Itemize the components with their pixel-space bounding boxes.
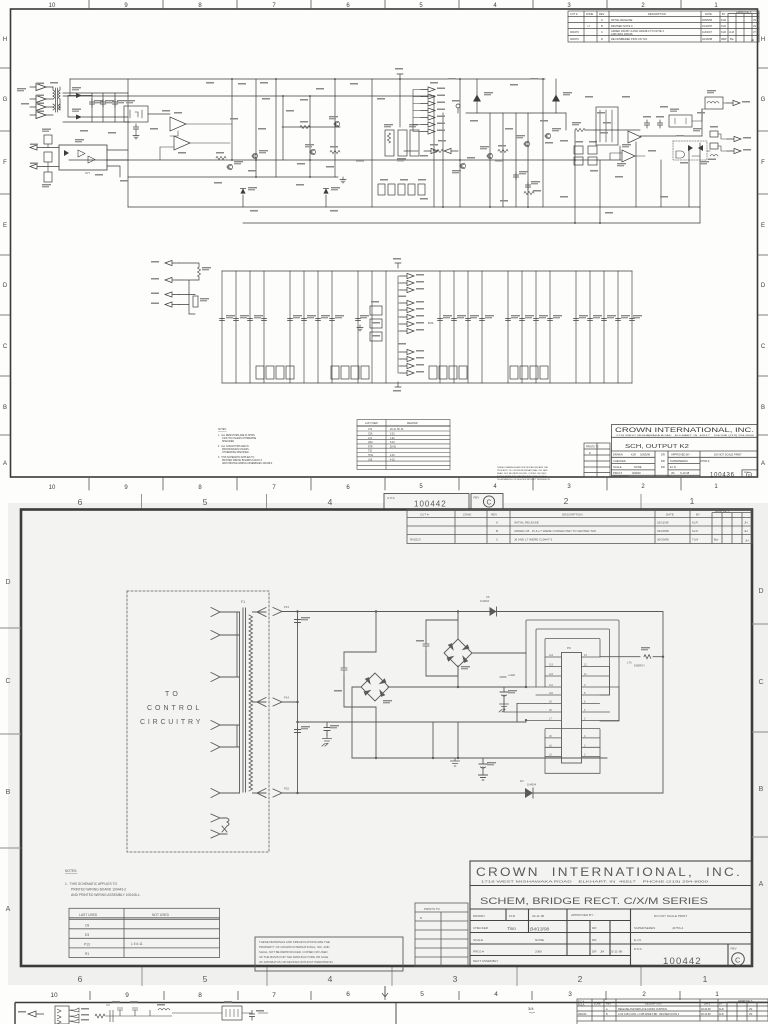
svg-text:CHECKED: CHECKED [613, 459, 626, 463]
ground node array [357, 325, 363, 331]
connector arrow stack P8/P12 [413, 87, 445, 134]
svg-text:D: D [3, 283, 8, 289]
svg-text:VCT: VCT [85, 172, 90, 175]
svg-text:S-10-98: S-10-98 [680, 471, 690, 475]
capacitor C1 [295, 617, 301, 625]
svg-text:4: 4 [328, 974, 333, 984]
svg-text:B: B [761, 405, 765, 411]
ruler numbers bottom (page1) [49, 484, 719, 491]
output arrow P09-1 [727, 136, 741, 141]
P9 wire loop outer [526, 620, 619, 721]
svg-text:1: 1 [703, 974, 708, 984]
svg-text:1N4004: 1N4004 [480, 599, 490, 603]
input arrow P10-4 [30, 145, 44, 150]
svg-text:JLM: JLM [729, 30, 734, 34]
diode CR11 [76, 93, 82, 98]
capacitor C09 [657, 120, 662, 128]
ruler numbers bottom page2 [78, 974, 708, 984]
dashed boundary box TO CONTROL CIRCUITRY [127, 591, 269, 852]
svg-text:CIRCUITRY: CIRCUITRY [140, 719, 203, 726]
D2 loop wiring [426, 612, 526, 677]
svg-text:P13: P13 [84, 943, 90, 947]
capacitor C08 [644, 120, 649, 128]
svg-text:6: 6 [78, 974, 83, 984]
svg-text:JM: JM [749, 1013, 752, 1016]
ruler tick marks left edge [0, 68, 10, 435]
svg-text:C: C [761, 344, 766, 350]
ground below C3 [322, 736, 332, 747]
misc reference designator smudges [80, 82, 668, 214]
svg-text:000479: 000479 [570, 37, 579, 41]
diode D55 [698, 145, 703, 151]
svg-text:KLR: KLR [721, 30, 726, 34]
ground node [340, 177, 346, 183]
svg-text:THESE DRAWINGS AND SPECIFICATI: THESE DRAWINGS AND SPECIFICATIONS ARE TH… [259, 940, 330, 944]
svg-text:U16: U16 [368, 459, 373, 461]
svg-text:5: 5 [203, 497, 208, 507]
output arrow P09-2 [727, 148, 741, 153]
svg-text:PROPERTY OF CROWN INTERNATIONA: PROPERTY OF CROWN INTERNATIONAL, INC. AN… [259, 945, 330, 949]
svg-text:C74: C74 [368, 429, 373, 431]
svg-text:CUT #: CUT # [420, 513, 429, 517]
svg-text:C: C [758, 679, 763, 686]
capacitor row [220, 319, 635, 321]
ruler numbers top page2 [78, 496, 695, 507]
diode D52 [473, 95, 481, 102]
svg-text:Bw: Bw [730, 37, 734, 41]
transistor Q4 [545, 133, 551, 138]
svg-text:SCHEM, BRIDGE RECT. C/X/M SERI: SCHEM, BRIDGE RECT. C/X/M SERIES [480, 896, 708, 906]
svg-text:1718 WEST MISHAWAKA ROAD ELK: 1718 WEST MISHAWAKA ROAD ELKHART, IN 465… [616, 434, 755, 437]
svg-text:P13: P13 [284, 605, 289, 609]
svg-text:NEXT ASSEMBLY: NEXT ASSEMBLY [473, 959, 498, 963]
svg-text:ENERGY: ENERGY [634, 664, 645, 668]
svg-text:000479: 000479 [570, 30, 579, 34]
svg-text:C8: C8 [85, 924, 89, 928]
svg-text:KLR: KLR [692, 529, 699, 533]
P9 lower pin stubs [545, 738, 600, 757]
svg-text:L 5 #-11: L 5 #-11 [131, 942, 143, 946]
svg-text:02/05/96: 02/05/96 [640, 453, 651, 457]
svg-text:PROJ #: PROJ # [473, 950, 484, 954]
svg-text:B: B [3, 405, 7, 411]
svg-text:DESCRIPTION: DESCRIPTION [645, 1003, 662, 1006]
svg-text:PROPERTY OF CROWN INTERNATIONA: PROPERTY OF CROWN INTERNATIONAL, INC. AN… [497, 469, 548, 472]
svg-text:DR: DR [592, 938, 597, 942]
svg-text:02-11-98: 02-11-98 [610, 950, 622, 954]
connector J50 [55, 1006, 69, 1024]
diode D50 [240, 188, 245, 193]
svg-text:02-11-98: 02-11-98 [532, 914, 544, 918]
svg-text:A: A [761, 461, 765, 467]
svg-text:02/05/96: 02/05/96 [702, 18, 713, 22]
sheet border frame page 1 [11, 9, 758, 477]
wire chain with inline connector [404, 150, 418, 152]
svg-text:10: 10 [50, 992, 58, 999]
svg-text:DRAWN: DRAWN [613, 453, 623, 457]
power tee below array [395, 382, 401, 387]
zone letters right page2 [758, 588, 763, 888]
svg-text:CHECKED: CHECKED [473, 926, 489, 930]
ground below C7 [499, 701, 509, 712]
resistor R51 [575, 128, 585, 131]
ground mid page2 [451, 758, 460, 766]
sheet border frame page 2 [21, 510, 752, 967]
svg-text:4: 4 [494, 991, 498, 998]
capacitor C62 [525, 182, 530, 190]
svg-text:11/03/97: 11/03/97 [702, 30, 712, 34]
ruler ticks page 3 [90, 986, 680, 1000]
wire: left vertical bus [298, 612, 459, 794]
svg-text:NOTES:: NOTES: [218, 429, 227, 431]
svg-text:DR: DR [661, 453, 665, 457]
svg-text:8: 8 [198, 992, 202, 999]
svg-text:1N4004: 1N4004 [527, 783, 537, 787]
svg-text:3: 3 [453, 974, 458, 984]
inductor L01 box [705, 97, 723, 109]
junction dots page 1 [231, 78, 601, 224]
resistor R61 [300, 125, 310, 128]
svg-text:A: A [3, 461, 7, 467]
ruler tick marks top edge [89, 0, 681, 9]
svg-text:J4766-9: J4766-9 [700, 459, 710, 463]
transformer F1 core [243, 608, 246, 792]
zone ticks right page2 [752, 624, 768, 837]
prints-to table page 2 [415, 903, 468, 966]
svg-text:Q5A: Q5A [368, 441, 373, 444]
connector arrow P13 [273, 608, 298, 616]
svg-text:D.F.S.: D.F.S. [634, 947, 643, 951]
diode D54 [688, 145, 693, 151]
svg-text:6: 6 [78, 497, 83, 507]
rev C circle [732, 953, 745, 966]
svg-text:B: B [601, 24, 603, 28]
svg-text:APPROVED BY :: APPROVED BY : [571, 913, 595, 917]
svg-text:02/16/98: 02/16/98 [702, 37, 713, 41]
svg-text:E: E [3, 223, 7, 229]
capacitor row labels [226, 315, 642, 318]
regulator U13 box [124, 106, 148, 122]
resistor R69 [44, 152, 52, 162]
resistor B6 [600, 655, 663, 659]
svg-text:C-50 C153 C156 + C155 WIRE 6 B: C-50 C153 C156 + C155 WIRE 6 BD REVISED … [618, 1013, 680, 1016]
component column C50 [370, 306, 382, 341]
center connector arrow stack [398, 273, 434, 375]
svg-text:D: D [5, 579, 10, 586]
svg-text:1718 WEST MISHAWAKA ROAD EL: 1718 WEST MISHAWAKA ROAD ELKHART, IN 465… [481, 880, 709, 884]
svg-text:OTHERWISE SPECIFIED.: OTHERWISE SPECIFIED. [222, 452, 250, 454]
svg-text:20-41, 56, 61: 20-41, 56, 61 [390, 429, 404, 431]
capacitor C5 [479, 758, 488, 780]
svg-text:100442: 100442 [414, 500, 447, 509]
svg-text:SCALE: SCALE [473, 938, 483, 942]
junction dots page 2 [296, 610, 664, 794]
svg-text:SUPERSEDES: SUPERSEDES [634, 926, 655, 930]
resistor R09 [710, 143, 718, 149]
svg-text:5-32: 5-32 [390, 442, 395, 444]
svg-text:J14: J14 [549, 654, 554, 657]
svg-text:P14: P14 [284, 696, 289, 700]
sheet border top page 3 [15, 1003, 768, 1024]
svg-text:R.S.A.: R.S.A. [578, 1004, 585, 1007]
inductor L50 [158, 1009, 170, 1011]
svg-text:C: C [487, 500, 492, 507]
wire verticals upper schematic [70, 79, 702, 223]
svg-text:E.I.N.: E.I.N. [670, 465, 677, 469]
svg-text:1. ALL RESISTORS ARE IN OHMS: 1. ALL RESISTORS ARE IN OHMS [218, 434, 255, 437]
svg-text:CROWN INTERNATIONAL, INC.: CROWN INTERNATIONAL, INC. [615, 428, 755, 434]
svg-text:OF APPARATUS OR DEVICES WITHOU: OF APPARATUS OR DEVICES WITHOUT PERMISSI… [497, 478, 551, 481]
resistor group 4 [510, 366, 548, 379]
svg-text:ZONE: ZONE [594, 1003, 601, 1006]
svg-text:D: D [589, 452, 591, 455]
svg-text:CROWN INTERNATIONAL, INC.: CROWN INTERNATIONAL, INC. [476, 865, 742, 879]
svg-text:BY: BY [722, 12, 726, 16]
svg-text:PRINTS TO: PRINTS TO [424, 907, 441, 911]
array top rail [222, 270, 632, 272]
svg-text:02/20/98: 02/20/98 [657, 529, 669, 533]
svg-text:3/4: 3/4 [528, 1006, 534, 1011]
svg-text:10: 10 [49, 3, 56, 9]
svg-text:C: C [601, 30, 603, 34]
svg-text:REV: REV [474, 496, 480, 500]
svg-text:R00223: R00223 [578, 1013, 587, 1016]
connector arrow P15 [273, 789, 302, 797]
svg-text:H: H [761, 37, 765, 43]
svg-text:DR: DR [661, 465, 665, 469]
revision table page 3 [577, 999, 768, 1024]
svg-text:KLR: KLR [719, 1013, 724, 1016]
svg-text:C6: C6 [486, 595, 490, 599]
svg-text:NEXT ASSEMBLY: NEXT ASSEMBLY [613, 475, 630, 478]
resistor group 3 [429, 366, 467, 379]
svg-text:REV: REV [491, 513, 497, 517]
svg-text:JH: JH [744, 529, 748, 533]
svg-text:R7R: R7R [368, 446, 373, 448]
svg-text:F: F [3, 160, 7, 166]
misc label smudges [697, 112, 705, 114]
vertical divider [395, 1003, 397, 1024]
svg-text:PRINTED WIRING BOARD 100443-2: PRINTED WIRING BOARD 100443-2 [71, 888, 126, 892]
svg-text:9: 9 [125, 992, 129, 999]
svg-text:C: C [3, 344, 8, 350]
svg-text:A: A [601, 18, 603, 22]
ruler tick marks right edge [758, 68, 768, 435]
svg-text:KLR: KLR [721, 18, 726, 22]
svg-text:1: 1 [715, 991, 719, 998]
svg-text:J-32: J-32 [390, 438, 395, 440]
svg-text:2: 2 [642, 991, 646, 998]
svg-text:BY: BY [719, 1003, 723, 1006]
capacitor C2 [295, 727, 301, 735]
svg-text:AS THE BASIS FOR THE MANUFACTU: AS THE BASIS FOR THE MANUFACTURE OR SALE [259, 955, 328, 959]
power tee node [397, 74, 403, 79]
svg-text:B: B [6, 789, 11, 796]
svg-text:C: C [735, 956, 741, 965]
bridge rectifier D1 [361, 673, 389, 701]
capacitor C53 [100, 99, 105, 107]
svg-text:D: D [758, 588, 763, 595]
svg-text:PRINTS TO: PRINTS TO [586, 446, 599, 449]
svg-text:R1: R1 [85, 952, 89, 956]
capacitor C3 electrolytic [324, 722, 330, 736]
svg-text:APPROVALS: APPROVALS [715, 511, 730, 514]
svg-text:AND PRINTED WIRING ASSEMBLIES: AND PRINTED WIRING ASSEMBLIES 100438-3. [222, 462, 273, 465]
svg-text:01/10/97: 01/10/97 [702, 24, 713, 28]
svg-text:C: C [5, 678, 10, 685]
svg-text:P15: P15 [284, 787, 289, 791]
svg-text:B: B [759, 786, 764, 793]
svg-text:APPROVED BY :: APPROVED BY : [671, 453, 691, 457]
svg-text:LAST USED: LAST USED [79, 913, 98, 917]
svg-text:ZONE: ZONE [586, 12, 593, 16]
transistor Q12 [310, 149, 316, 154]
regulator U01 box [669, 115, 692, 127]
prints-to table page 1 [584, 443, 610, 477]
svg-text:03-20-98: 03-20-98 [701, 1008, 711, 1011]
inductor L7A [710, 155, 718, 157]
svg-text:5: 5 [203, 974, 208, 984]
svg-text:E.I.N.: E.I.N. [634, 938, 642, 942]
svg-text:B4/13/98: B4/13/98 [530, 927, 550, 933]
transistor Q11 [227, 164, 233, 169]
svg-text:DR: DR [592, 950, 597, 954]
svg-text:JBW: JBW [721, 37, 727, 41]
svg-text:CONTROL: CONTROL [147, 705, 202, 712]
op-amp U14B [622, 150, 635, 162]
svg-text:J10: J10 [549, 692, 554, 695]
svg-text:INITIAL RELEASE: INITIAL RELEASE [611, 18, 633, 22]
svg-text:DRAWN: DRAWN [473, 914, 485, 918]
output arrow +5V [726, 100, 740, 105]
scan background page 2 [8, 503, 768, 985]
svg-text:KLR: KLR [721, 24, 726, 28]
resistor R08 [710, 131, 718, 137]
svg-text:2: 2 [564, 496, 569, 506]
svg-text:1/4W, 5% UNLESS OTHERWISE: 1/4W, 5% UNLESS OTHERWISE [222, 438, 257, 440]
svg-text:A: A [496, 521, 498, 525]
secondary lead arrows right [253, 608, 267, 798]
power tee above array [395, 263, 401, 268]
transistor Q1 [460, 163, 466, 168]
svg-text:B: B [496, 529, 498, 533]
svg-text:D: D [601, 37, 603, 41]
svg-text:BUS: BUS [428, 321, 434, 325]
svg-text:F: F [761, 160, 765, 166]
resistor group 1 [256, 366, 294, 379]
svg-text:NONE: NONE [634, 465, 642, 469]
wires input group [179, 263, 199, 314]
svg-text:5: 5 [420, 991, 424, 998]
resistor block R65 [410, 130, 419, 156]
transistor Q10 [252, 153, 258, 158]
capacitor C54 [112, 99, 117, 107]
svg-text:D: D [761, 283, 766, 289]
primary winding lead arrows left [211, 608, 240, 798]
svg-text:JS: JS [753, 24, 756, 28]
transistor Q13 [334, 121, 340, 126]
svg-text:NOT USED: NOT USED [152, 913, 170, 917]
capacitor bank box [596, 107, 618, 145]
svg-text:DO NOT SCALE PRINT: DO NOT SCALE PRINT [714, 453, 742, 457]
resistor block R63 [385, 130, 394, 156]
capacitor on D2 loop [423, 644, 429, 652]
svg-text:100442: 100442 [663, 956, 702, 967]
svg-text:06/30/98: 06/30/98 [657, 538, 669, 542]
svg-text:REV: REV [599, 12, 605, 16]
diode D3 [525, 788, 533, 798]
title block page 2 [470, 861, 752, 966]
disclaimer box page 2 [255, 937, 403, 971]
ruler ticks page2 bottom [142, 966, 641, 986]
ruler numbers top [49, 3, 719, 9]
input arrow [28, 1011, 44, 1017]
svg-text:JM: JM [749, 1008, 752, 1011]
array bottom rail [222, 382, 632, 384]
wire: top rail to right vertical [298, 612, 664, 794]
test point TP1 [456, 104, 460, 108]
disclaimer text block page 1 [497, 466, 551, 481]
resistor network R55 [574, 146, 597, 165]
input arrow P10-7 [30, 164, 44, 169]
svg-text:SPECIFIED.: SPECIFIED. [222, 441, 235, 443]
svg-text:2-40: 2-40 [390, 455, 395, 457]
svg-text:JM: JM [600, 950, 605, 954]
optocoupler U15 box [59, 145, 107, 170]
svg-text:10: 10 [49, 485, 56, 491]
svg-text:J12: J12 [549, 673, 554, 676]
resistor R68 [44, 135, 52, 144]
svg-text:RE-NUMBERED PINS ON T24.: RE-NUMBERED PINS ON T24. [611, 37, 648, 41]
component row boxes [378, 184, 425, 195]
resistor R21 vertical [198, 267, 201, 277]
connector arrow P10-L4 [165, 292, 179, 297]
svg-text:7: 7 [272, 992, 276, 999]
svg-text:L7A: L7A [368, 437, 373, 440]
resistor block R64 [398, 130, 407, 156]
svg-text:H: H [3, 37, 7, 43]
svg-text:1. THIS SCHEMATIC APPLIES TO: 1. THIS SCHEMATIC APPLIES TO [65, 882, 117, 886]
svg-text:KLR: KLR [692, 521, 699, 525]
svg-text:R00223: R00223 [410, 538, 421, 542]
svg-text:D3: D3 [520, 779, 524, 783]
transformer U50 box [222, 1006, 242, 1020]
svg-text:D3: D3 [85, 933, 89, 937]
svg-text:APPROVALS: APPROVALS [736, 10, 752, 14]
revision table page 1 [568, 11, 759, 42]
title block page 1 [612, 425, 758, 478]
capacitor C55 [133, 124, 138, 132]
diode CR12 [76, 115, 82, 120]
ruler tick marks bottom edge [89, 477, 681, 490]
svg-text:G: G [761, 97, 766, 103]
svg-text:J13: J13 [549, 664, 554, 667]
P9 pin stubs left [526, 657, 562, 721]
svg-text:KLR: KLR [509, 914, 516, 918]
svg-text:F1: F1 [241, 600, 245, 604]
capacitor C7 [500, 687, 508, 701]
svg-text:100436: 100436 [710, 473, 735, 479]
svg-text:400000: 400000 [632, 471, 641, 475]
svg-text:TP11: TP11 [368, 455, 374, 457]
resistor R50 [498, 149, 508, 152]
svg-text:THESE DRAWINGS AND SPECIFICATI: THESE DRAWINGS AND SPECIFICATIONS ARE TH… [497, 466, 548, 469]
svg-text:DESCRIPTION: DESCRIPTION [562, 513, 583, 517]
dashed select box [673, 141, 707, 160]
svg-text:02/11/98: 02/11/98 [657, 521, 669, 525]
op-amp U16B [170, 117, 186, 131]
transformer T24 [46, 87, 60, 115]
